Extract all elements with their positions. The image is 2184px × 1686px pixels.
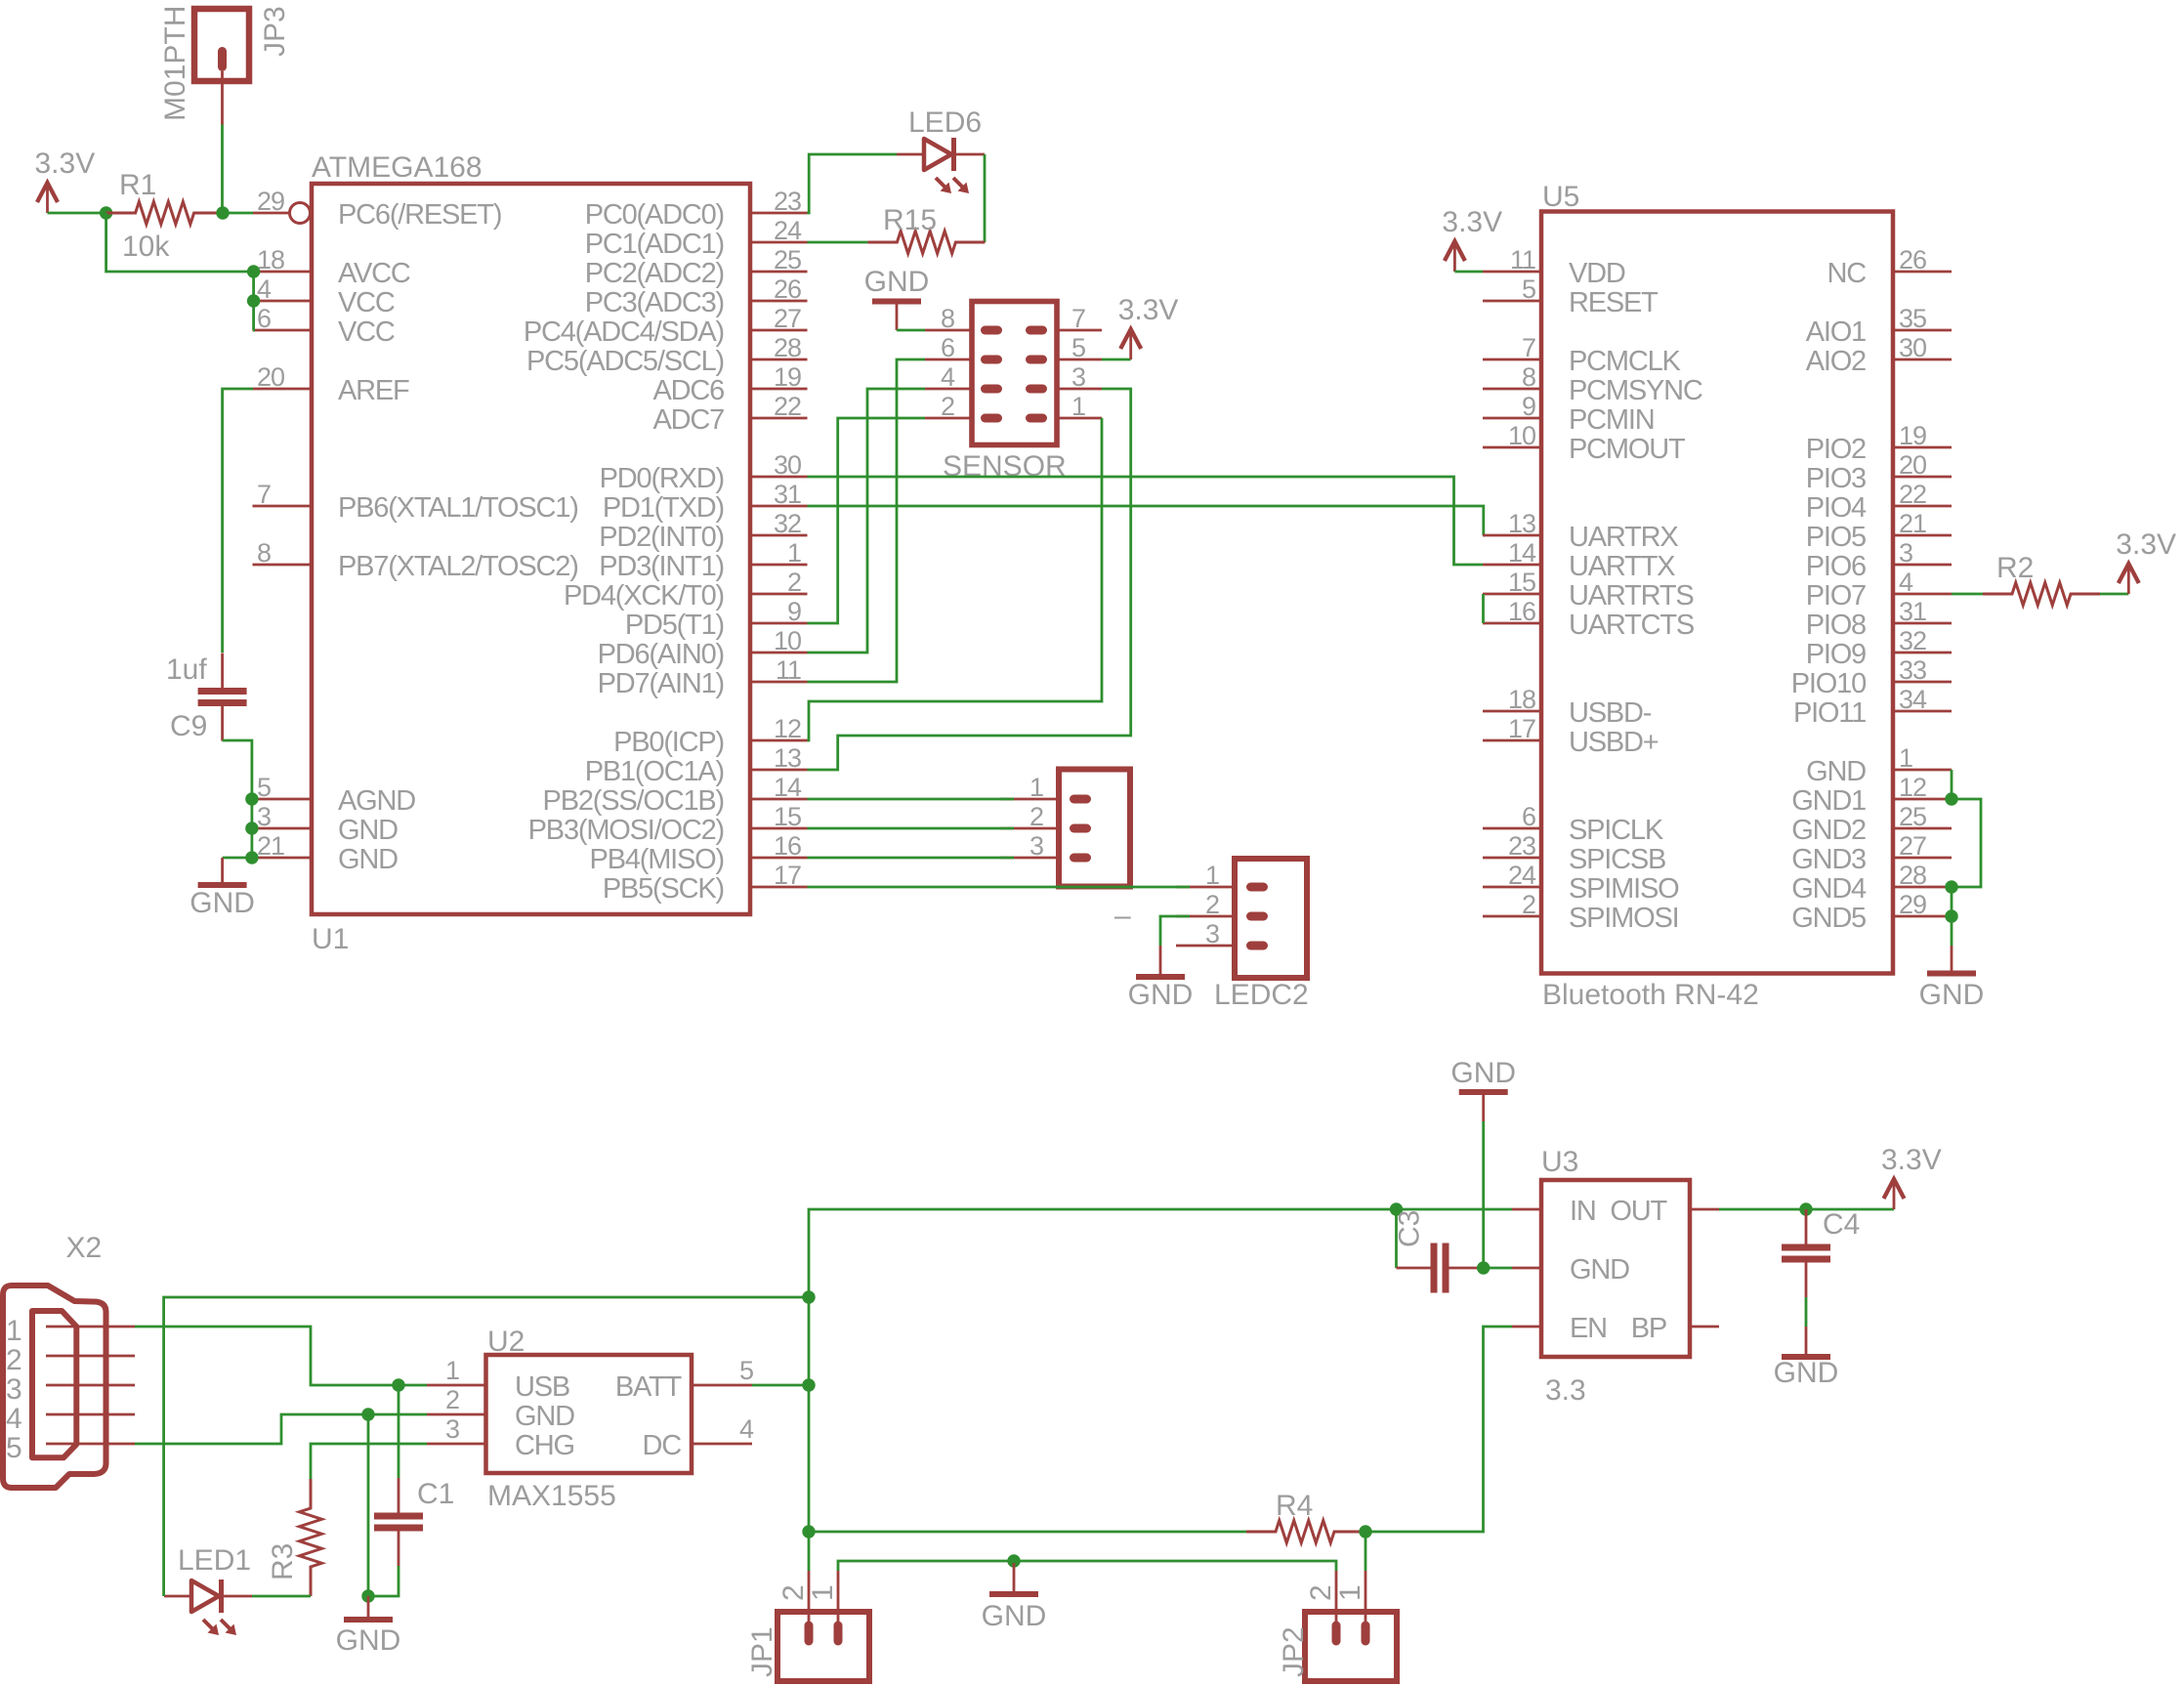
connector JP3	[159, 6, 291, 121]
ground symbol U1	[189, 858, 255, 919]
JP3 pin 1 stub	[221, 71, 224, 125]
svg-text:AREF: AREF	[338, 375, 409, 406]
junction U2 BATT	[802, 1378, 815, 1391]
svg-text:PD3(INT1): PD3(INT1)	[599, 551, 724, 582]
svg-text:8: 8	[1522, 362, 1535, 392]
svg-text:GND: GND	[336, 1624, 401, 1657]
svg-text:3: 3	[1899, 538, 1912, 568]
SENSOR pins 8/7	[925, 304, 1102, 335]
U1 pin 27 PC4(ADC4/SDA)	[524, 304, 808, 348]
svg-text:ADC6: ADC6	[652, 375, 724, 406]
U3 pin OUT	[1610, 1196, 1719, 1227]
wire to GND symbol	[223, 857, 252, 860]
svg-text:PCMIN: PCMIN	[1569, 404, 1654, 436]
svg-text:R15: R15	[883, 204, 937, 236]
svg-text:GND: GND	[515, 1401, 574, 1432]
svg-text:5: 5	[739, 1356, 753, 1385]
wire LED1 to BATT rail	[164, 1297, 809, 1596]
svg-text:VCC: VCC	[338, 287, 395, 318]
svg-text:GND3: GND3	[1791, 844, 1866, 875]
svg-text:LED1: LED1	[178, 1544, 251, 1577]
U5 pin 22 PIO4	[1806, 480, 1952, 524]
U2 pin 2 GND	[427, 1385, 574, 1432]
svg-text:PB4(MISO): PB4(MISO)	[590, 844, 724, 875]
ground symbol above U3	[1450, 1057, 1516, 1121]
wire 3.3V down to AVCC	[106, 213, 254, 272]
U5 pin 24 SPIMISO	[1483, 861, 1679, 905]
power symbol 3.3V (sensor)	[1118, 294, 1179, 359]
LED LED1	[164, 1544, 252, 1635]
svg-text:GND1: GND1	[1791, 785, 1866, 817]
capacitor C4	[1782, 1208, 1860, 1297]
svg-text:R4: R4	[1276, 1490, 1313, 1522]
svg-text:19: 19	[1899, 421, 1926, 450]
svg-text:PD5(T1): PD5(T1)	[625, 610, 724, 641]
svg-text:28: 28	[1899, 861, 1926, 890]
svg-text:6: 6	[941, 333, 954, 362]
U3 pin GND	[1512, 1254, 1629, 1286]
wire PB3 to header 2	[808, 827, 1015, 830]
X2 pin 4	[6, 1403, 135, 1435]
header pin 3	[1000, 831, 1091, 863]
svg-text:GND: GND	[1570, 1254, 1629, 1286]
ground symbol JP	[982, 1563, 1047, 1632]
U1 pin 25 PC2(ADC2)	[585, 245, 808, 289]
resistor R3	[267, 1479, 322, 1596]
svg-text:PC0(ADC0): PC0(ADC0)	[585, 199, 724, 231]
svg-text:3: 3	[1205, 919, 1219, 948]
wire UARTRTS to UARTCTS	[1482, 594, 1485, 623]
svg-text:24: 24	[774, 216, 802, 245]
svg-text:JP1: JP1	[746, 1626, 778, 1677]
svg-text:PC5(ADC5/SCL): PC5(ADC5/SCL)	[526, 346, 724, 377]
connector header body	[1059, 770, 1130, 887]
junction GND4	[1945, 880, 1957, 893]
svg-text:31: 31	[774, 480, 801, 509]
capacitor C3	[1394, 1210, 1484, 1293]
wire C4 to 3.3V	[1806, 1208, 1894, 1211]
wire SENSOR 3 to PB1	[808, 389, 1131, 770]
svg-text:1: 1	[807, 1584, 839, 1601]
svg-text:PB2(SS/OC1B): PB2(SS/OC1B)	[543, 785, 724, 817]
connector JP2	[1278, 1571, 1397, 1681]
U5 pin 7 PCMCLK	[1483, 333, 1682, 377]
U5 pin 29 GND5	[1791, 890, 1952, 934]
svg-text:M01PTH: M01PTH	[159, 6, 191, 121]
svg-text:PIO7: PIO7	[1806, 580, 1866, 611]
svg-text:1uf: 1uf	[166, 653, 207, 686]
svg-text:17: 17	[774, 861, 801, 890]
svg-text:5: 5	[257, 773, 271, 802]
svg-text:2: 2	[787, 568, 801, 597]
wire GND to SENSOR pin 8	[897, 329, 925, 332]
svg-text:22: 22	[774, 392, 801, 421]
svg-text:DC: DC	[643, 1430, 682, 1461]
svg-text:20: 20	[257, 362, 284, 392]
U1 pin 3 GND	[253, 802, 399, 846]
wire VCC4 to VCC6	[252, 301, 255, 330]
svg-text:PCMOUT: PCMOUT	[1569, 434, 1686, 465]
U5 pin 20 PIO3	[1806, 450, 1952, 494]
svg-text:5: 5	[6, 1432, 22, 1464]
U5 pin 16 UARTCTS	[1483, 597, 1695, 641]
svg-text:LEDC2: LEDC2	[1214, 979, 1309, 1011]
X2 pin 1	[6, 1315, 135, 1347]
svg-text:UARTCTS: UARTCTS	[1569, 610, 1695, 641]
U1 pin 28 PC5(ADC5/SCL)	[526, 333, 807, 377]
ground symbol C4	[1774, 1327, 1839, 1389]
wire X2.1 to U2 USB	[135, 1327, 427, 1385]
U5 pin 28 GND4	[1791, 861, 1952, 905]
svg-text:3: 3	[257, 802, 271, 831]
svg-text:7: 7	[1522, 333, 1535, 362]
svg-text:1: 1	[787, 538, 801, 568]
wire C1 branch	[398, 1385, 400, 1478]
U2 pin 5 BATT	[615, 1356, 753, 1403]
svg-text:35: 35	[1899, 304, 1926, 333]
svg-text:1: 1	[1071, 392, 1085, 421]
wire LEDC2 2 to GND	[1160, 916, 1190, 946]
wire AREF to C9	[223, 389, 253, 653]
svg-text:UARTRTS: UARTRTS	[1569, 580, 1694, 611]
svg-text:3: 3	[1029, 831, 1043, 861]
U5 pin 33 PIO10	[1791, 655, 1952, 699]
U2 pin 1 USB	[427, 1356, 569, 1403]
U5 pin 19 PIO2	[1806, 421, 1952, 465]
svg-text:GND5: GND5	[1791, 903, 1866, 934]
svg-text:GND: GND	[1806, 756, 1866, 787]
svg-text:6: 6	[1522, 802, 1535, 831]
wire PD1 to UARTRX	[808, 506, 1484, 535]
svg-text:PIO3: PIO3	[1806, 463, 1866, 494]
svg-text:PD2(INT0): PD2(INT0)	[599, 522, 724, 553]
wire IN rail to U3	[1397, 1208, 1513, 1211]
svg-text:ATMEGA168: ATMEGA168	[312, 151, 483, 184]
resistor R2	[1983, 552, 2100, 606]
U5 pin 12 GND1	[1791, 773, 1952, 817]
svg-text:22: 22	[1899, 480, 1926, 509]
svg-text:2: 2	[941, 392, 954, 421]
X2 pin 5	[6, 1432, 135, 1464]
U5 pin 3 PIO6	[1806, 538, 1952, 582]
svg-text:R3: R3	[267, 1543, 299, 1581]
wire GND4 to GND5	[1951, 887, 1953, 916]
svg-text:13: 13	[774, 743, 801, 773]
wire ground bus 818-848	[250, 799, 253, 828]
svg-text:VCC: VCC	[338, 316, 395, 348]
U1 pin 32 PD2(INT0)	[599, 509, 807, 553]
junction GND pin 3	[245, 822, 258, 834]
svg-text:4: 4	[739, 1414, 754, 1444]
svg-text:PCMCLK: PCMCLK	[1569, 346, 1682, 377]
svg-text:29: 29	[1899, 890, 1926, 919]
IC U1 ATMEGA168 body	[312, 151, 750, 955]
wire 3.3V to VDD	[1454, 271, 1483, 274]
svg-text:3: 3	[6, 1373, 22, 1406]
svg-text:BATT: BATT	[615, 1371, 683, 1403]
wire GND1 bracket GND4	[1952, 799, 1981, 887]
U1 pin 13 PB1(OC1A)	[585, 743, 808, 787]
IC U3 body	[1541, 1146, 1690, 1407]
junction U2 GND branch	[361, 1408, 374, 1420]
U1 pin 29 PC6(/RESET)	[253, 187, 502, 231]
svg-text:2: 2	[1305, 1584, 1337, 1601]
U1 pin 19 ADC6	[652, 362, 807, 406]
svg-text:GND2: GND2	[1791, 815, 1866, 846]
wire R2 to 3.3V	[2100, 593, 2128, 596]
U1 pin 8 PB7(XTAL2/TOSC2)	[253, 538, 578, 582]
svg-text:21: 21	[1899, 509, 1926, 538]
svg-text:CHG: CHG	[515, 1430, 574, 1461]
U1 pin 21 GND	[253, 831, 399, 875]
svg-text:JP2: JP2	[1278, 1626, 1310, 1677]
resistor R15	[867, 204, 985, 254]
U5 pin 32 PIO9	[1806, 626, 1952, 670]
svg-text:9: 9	[787, 597, 801, 626]
svg-text:14: 14	[1508, 538, 1536, 568]
svg-text:GND: GND	[864, 266, 930, 298]
U5 pin 35 AIO1	[1806, 304, 1952, 348]
svg-text:GND: GND	[338, 844, 398, 875]
U5 pin 5 RESET	[1483, 274, 1659, 318]
svg-text:PIO4: PIO4	[1806, 492, 1867, 524]
U1 pin 6 VCC	[253, 304, 395, 348]
svg-text:21: 21	[257, 831, 284, 861]
U3 pin EN	[1512, 1313, 1607, 1344]
ground symbol at SENSOR pin 8	[864, 266, 930, 330]
svg-text:U1: U1	[312, 923, 349, 955]
svg-text:18: 18	[257, 245, 284, 274]
U5 pin 31 PIO8	[1806, 597, 1952, 641]
svg-text:1: 1	[1029, 773, 1043, 802]
svg-text:11: 11	[1510, 245, 1535, 274]
U1 pin 16 PB4(MISO)	[590, 831, 808, 875]
svg-text:PD0(RXD): PD0(RXD)	[600, 463, 724, 494]
svg-text:10: 10	[774, 626, 801, 655]
wire JP1.2 down	[808, 1532, 811, 1571]
svg-text:32: 32	[1899, 626, 1926, 655]
svg-text:EN: EN	[1570, 1313, 1607, 1344]
svg-text:GND: GND	[1450, 1057, 1516, 1089]
svg-text:5: 5	[1522, 274, 1535, 304]
power symbol 3.3V (left)	[35, 148, 96, 213]
wire JP3 to RESET net	[221, 125, 224, 214]
wire C1 bottom to GND	[368, 1566, 399, 1596]
U5 pin 23 SPICSB	[1483, 831, 1665, 875]
svg-text:5: 5	[1071, 333, 1085, 362]
svg-text:GND: GND	[189, 887, 255, 919]
wire 3.3V to R1	[48, 212, 106, 215]
junction at R1 left	[100, 206, 112, 219]
U5 pin 13 UARTRX	[1483, 509, 1678, 553]
svg-text:1: 1	[1205, 861, 1219, 890]
svg-text:12: 12	[774, 714, 801, 743]
svg-text:ADC7: ADC7	[652, 404, 724, 436]
svg-text:2: 2	[777, 1584, 810, 1601]
svg-text:26: 26	[774, 274, 801, 304]
svg-text:23: 23	[774, 187, 801, 216]
U5 pin 11 VDD	[1483, 245, 1625, 289]
svg-text:C4: C4	[1823, 1208, 1860, 1241]
wire OUT to C4	[1719, 1208, 1806, 1211]
wire ground bus 848-878	[250, 828, 253, 858]
svg-text:PB5(SCK): PB5(SCK)	[603, 873, 724, 905]
svg-text:25: 25	[1899, 802, 1926, 831]
svg-text:6: 6	[257, 304, 271, 333]
junction C4 top	[1799, 1202, 1812, 1215]
SENSOR pins 2/1	[925, 392, 1102, 423]
svg-text:33: 33	[1899, 655, 1926, 685]
LEDC2 pin 2	[1176, 890, 1268, 921]
svg-text:26: 26	[1899, 245, 1926, 274]
wire PC0 up to LED6	[808, 154, 898, 213]
wire PB5 to LEDC2 1	[808, 886, 1191, 889]
capacitor C1	[374, 1478, 454, 1566]
junction BATT rail	[802, 1290, 815, 1303]
svg-text:31: 31	[1899, 597, 1926, 626]
U1 pin 14 PB2(SS/OC1B)	[543, 773, 808, 817]
svg-text:PC2(ADC2): PC2(ADC2)	[585, 258, 724, 289]
svg-text:1: 1	[6, 1315, 22, 1347]
svg-text:29: 29	[257, 187, 284, 216]
svg-text:SPICLK: SPICLK	[1569, 815, 1664, 846]
svg-text:PB1(OC1A): PB1(OC1A)	[585, 756, 724, 787]
header pin 2	[1000, 802, 1091, 833]
junction GND5	[1945, 909, 1957, 922]
SENSOR pins 4/3	[925, 362, 1102, 394]
svg-text:PCMSYNC: PCMSYNC	[1569, 375, 1702, 406]
X2 pin 2	[6, 1344, 135, 1376]
U5 pin 17 USBD+	[1483, 714, 1659, 758]
wire GND5 to ground	[1951, 916, 1953, 946]
svg-text:C9: C9	[170, 710, 207, 742]
svg-text:32: 32	[774, 509, 801, 538]
svg-text:2: 2	[1522, 890, 1535, 919]
LEDC2 pin 3	[1176, 919, 1268, 950]
U5 pin 14 UARTTX	[1483, 538, 1675, 582]
wire SENSOR 2 to PD5	[808, 418, 926, 623]
U2 pin 3 CHG	[427, 1414, 574, 1461]
resistor R4	[1246, 1490, 1364, 1543]
U1 pin 22 ADC7	[652, 392, 807, 436]
svg-text:11: 11	[776, 655, 801, 685]
wire BATT vertical low	[808, 1385, 811, 1532]
U3 pin IN	[1512, 1196, 1596, 1227]
wire SENSOR 4 to PD6	[808, 389, 926, 653]
svg-text:30: 30	[774, 450, 801, 480]
svg-text:PC4(ADC4/SDA): PC4(ADC4/SDA)	[524, 316, 724, 348]
U5 pin 27 GND3	[1791, 831, 1952, 875]
svg-text:1: 1	[1899, 743, 1912, 773]
U5 pin 2 SPIMOSI	[1483, 890, 1678, 934]
U5 pin 15 UARTRTS	[1483, 568, 1694, 611]
wire C9 to ground bus	[223, 740, 252, 799]
svg-text:NC: NC	[1827, 258, 1867, 289]
svg-text:GND: GND	[338, 815, 398, 846]
svg-text:2: 2	[1029, 802, 1043, 831]
wire JP2.1 down	[1365, 1532, 1367, 1571]
svg-text:13: 13	[1508, 509, 1535, 538]
U5 pin 8 PCMSYNC	[1483, 362, 1702, 406]
svg-text:25: 25	[774, 245, 801, 274]
svg-text:PIO8: PIO8	[1806, 610, 1866, 641]
svg-text:12: 12	[1899, 773, 1926, 802]
svg-text:UARTRX: UARTRX	[1569, 522, 1678, 553]
junction at VCC pin 4	[247, 294, 260, 307]
svg-text:PIO2: PIO2	[1806, 434, 1866, 465]
junction AGND pin 5	[245, 792, 258, 805]
svg-text:X2: X2	[66, 1232, 103, 1264]
connector X2 USB shell	[3, 1232, 106, 1488]
U1 pin 18 AVCC	[253, 245, 410, 289]
U1 pin 30 PD0(RXD)	[600, 450, 808, 494]
wire rail to R4	[809, 1531, 1246, 1534]
svg-text:–: –	[1114, 900, 1131, 932]
svg-text:R2: R2	[1996, 552, 2034, 584]
U5 pin 9 PCMIN	[1483, 392, 1654, 436]
svg-text:15: 15	[774, 802, 801, 831]
svg-text:AIO2: AIO2	[1806, 346, 1866, 377]
wire PD0 to UARTTX	[808, 477, 1484, 565]
LEDC2 pin2 name minus	[1114, 900, 1131, 932]
U1 pin 26 PC3(ADC3)	[585, 274, 808, 318]
U3 pin BP	[1631, 1313, 1719, 1344]
wire X2.5 to U2 GND	[135, 1414, 427, 1444]
U5 pin 25 GND2	[1791, 802, 1952, 846]
svg-text:BP: BP	[1631, 1313, 1666, 1344]
svg-text:3.3V: 3.3V	[35, 148, 96, 180]
wire R3 to LED1	[252, 1595, 311, 1598]
junction C1 top	[392, 1378, 404, 1391]
svg-text:GND: GND	[1128, 979, 1194, 1011]
svg-text:3.3: 3.3	[1545, 1374, 1586, 1407]
svg-text:C3: C3	[1394, 1210, 1426, 1247]
X2 pin 3	[6, 1373, 135, 1406]
svg-text:PD4(XCK/T0): PD4(XCK/T0)	[564, 580, 724, 611]
U1 pin 11 PD7(AIN1)	[598, 655, 808, 699]
svg-text:8: 8	[941, 304, 954, 333]
svg-text:2: 2	[445, 1385, 459, 1414]
SENSOR pins 6/5	[925, 333, 1102, 364]
junction GND pin 21	[245, 851, 258, 864]
power symbol 3.3V (U5 VDD)	[1442, 206, 1502, 272]
wire PIO7 to R2	[1952, 593, 1983, 596]
U1 pin 31 PD1(TXD)	[603, 480, 808, 524]
svg-text:1: 1	[1334, 1584, 1366, 1601]
wire AVCC to VCC	[252, 272, 255, 301]
svg-text:3.3V: 3.3V	[1881, 1144, 1942, 1176]
LEDC2 pin 1	[1176, 861, 1268, 892]
svg-text:8: 8	[257, 538, 271, 568]
U5 pin 10 PCMOUT	[1483, 421, 1686, 465]
svg-text:GND: GND	[982, 1600, 1047, 1632]
svg-text:PC6(/RESET): PC6(/RESET)	[338, 199, 501, 231]
connector JP1	[746, 1571, 869, 1681]
svg-text:U3: U3	[1541, 1146, 1578, 1178]
U5 pin 1 GND	[1806, 743, 1952, 787]
U1 pin 9 PD5(T1)	[625, 597, 808, 641]
svg-text:PIO5: PIO5	[1806, 522, 1866, 553]
svg-text:4: 4	[6, 1403, 22, 1435]
svg-text:28: 28	[774, 333, 801, 362]
junction at AVCC	[247, 265, 260, 277]
wire R4 to EN	[1365, 1327, 1512, 1532]
wire R1 to U1 pin 29	[223, 212, 253, 215]
U5 pin 18 USBD-	[1483, 685, 1652, 729]
svg-text:PB0(ICP): PB0(ICP)	[613, 727, 724, 758]
svg-text:AVCC: AVCC	[338, 258, 410, 289]
junction R4 right	[1359, 1525, 1371, 1538]
